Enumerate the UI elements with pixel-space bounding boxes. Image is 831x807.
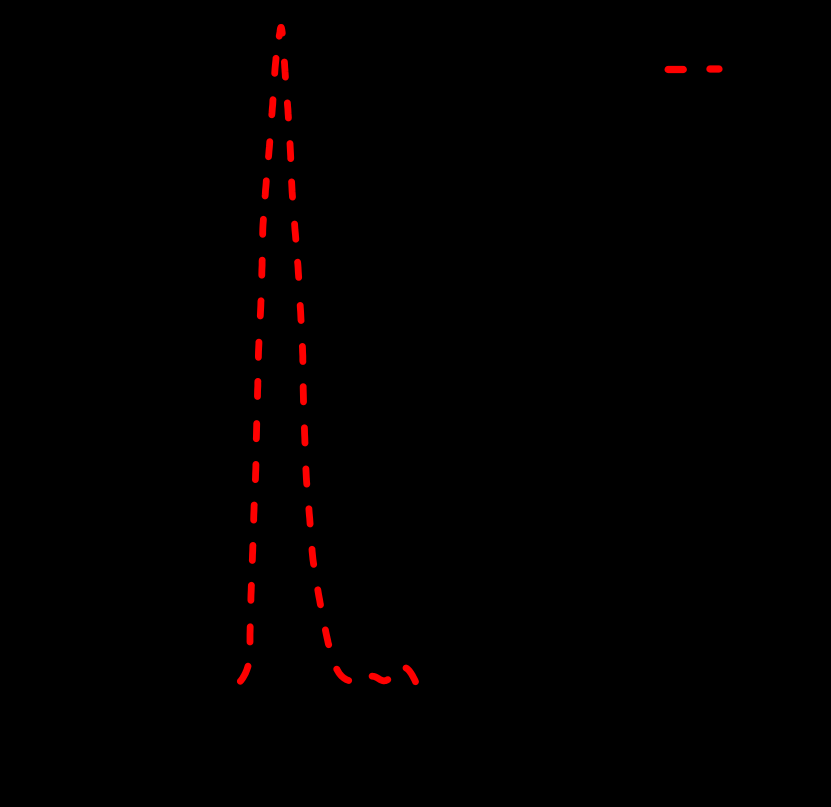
red dashed curve, left branch dash 2 (bottom to top) — [247, 627, 254, 642]
red dashed curve, right branch dash 8 (top to bottom) — [299, 346, 306, 361]
red dashed curve, right branch dash 16 (top to bottom) — [337, 669, 349, 680]
red dashed curve, right branch dash 6 (top to bottom) — [298, 262, 299, 277]
red dashed curve, left branch dash 14 (bottom to top) — [269, 142, 270, 157]
red dashed curve, left branch dash 10 (bottom to top) — [257, 301, 265, 316]
red dashed curve, left branch dash 4 (bottom to top) — [249, 545, 256, 560]
red dashed curve, left branch dash 12 (bottom to top) — [259, 219, 266, 234]
red dashed curve, right branch dash 1 (top to bottom) — [284, 62, 285, 77]
red dashed curve, right branch dash 3 (top to bottom) — [287, 144, 295, 159]
red dashed curve, left branch dash 7 (bottom to top) — [253, 424, 260, 439]
red dashed curve, left branch dash 3 (bottom to top) — [247, 585, 254, 600]
red dashed curve, right branch dash 18 (top to bottom) — [406, 668, 416, 682]
red dashed curve, right branch dash 11 (top to bottom) — [302, 469, 310, 484]
red dashed curve, right branch dash 5 (top to bottom) — [295, 224, 296, 239]
red dashed curve, right branch dash 14 (top to bottom) — [318, 590, 321, 605]
red dashed curve, right branch dash 13 (top to bottom) — [312, 549, 314, 564]
legend handle: red dashed line sample, dash 2 — [710, 65, 719, 72]
red dashed curve, left branch dash 11 (bottom to top) — [258, 260, 265, 275]
red dashed curve, left branch dash 1 (bottom to top) — [240, 666, 248, 681]
red dashed curve, right branch dash 17 (top to bottom) — [372, 676, 388, 681]
red dashed curve, right branch dash 7 (top to bottom) — [297, 305, 305, 320]
legend handle: red dashed line sample, dash 1 — [668, 66, 683, 73]
red dashed curve, left branch dash 6 (bottom to top) — [252, 464, 259, 479]
red dashed curve, left branch dash 9 (bottom to top) — [255, 342, 262, 357]
red dashed curve, right branch dash 4 (top to bottom) — [288, 182, 296, 197]
red dashed curve, left branch dash 5 (bottom to top) — [250, 505, 257, 520]
red dashed curve, right branch dash 10 (top to bottom) — [301, 428, 308, 443]
red dashed curve, left branch dash 13 (bottom to top) — [265, 181, 266, 196]
red dashed curve, left branch dash 16 (bottom to top) — [275, 58, 276, 73]
red dashed curve, apex dash — [279, 27, 282, 36]
red dashed curve, left branch dash 15 (bottom to top) — [272, 100, 273, 115]
red dashed curve, right branch dash 12 (top to bottom) — [309, 509, 310, 524]
red dashed curve, right branch dash 9 (top to bottom) — [300, 387, 307, 402]
red dashed curve, right branch dash 2 (top to bottom) — [287, 103, 288, 118]
red dashed curve, right branch dash 15 (top to bottom) — [325, 630, 328, 645]
red dashed curve, left branch dash 8 (bottom to top) — [254, 381, 261, 396]
